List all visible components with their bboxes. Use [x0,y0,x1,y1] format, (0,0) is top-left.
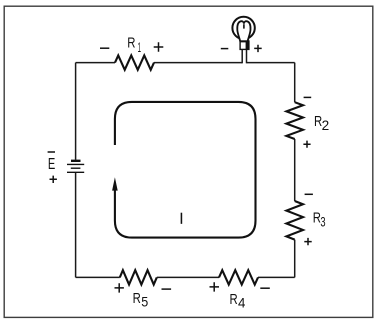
minus of R3 [305,193,313,195]
minus of R4 [260,287,270,289]
resistor R1 [115,55,154,69]
wire right lower [294,240,296,278]
wire top-left [76,62,115,64]
plus of E [50,176,57,183]
current loop [115,102,256,238]
minus of R5 [162,288,172,290]
resistor R3 [286,201,303,240]
wire top-middle [154,62,242,64]
svg-text:2: 2 [322,118,330,133]
wire left upper [75,63,77,160]
wire top-right [247,62,295,64]
resistor R4 [219,270,258,284]
minus of lamp [221,48,229,50]
lamp filament stub [243,24,245,28]
wire left lower [75,172,77,277]
svg-text:4: 4 [238,296,246,311]
resistor R5 [120,270,157,284]
battery E [67,161,84,173]
svg-text:E: E [48,156,55,173]
lamp lead left [241,49,243,63]
wire bottom-middle [157,276,219,278]
plus of R4 [210,282,220,291]
minus of E [48,151,55,153]
svg-text:5: 5 [141,295,148,310]
plus of R3 [304,238,311,245]
minus of R2 [304,96,312,98]
svg-text:3: 3 [320,215,325,230]
wire bottom-left [76,276,120,278]
wire bottom-right [258,276,295,278]
lamp filament [237,21,250,41]
plus of R2 [303,141,310,148]
current arrow head [112,177,118,190]
lamp lead right [246,49,248,63]
svg-text:R: R [230,291,238,308]
minus of R1 [100,47,109,49]
svg-text:R: R [133,290,141,307]
lamp base [240,41,249,49]
plus of R1 [154,42,164,52]
lamp envelope [232,17,254,39]
resistor R2 [286,102,303,139]
plus of R5 [115,283,124,292]
svg-text:R: R [127,35,135,52]
wire right upper [294,63,296,103]
plus of lamp [254,45,262,52]
wire right middle [294,139,296,201]
label I [181,213,183,224]
svg-text:1: 1 [138,40,141,55]
